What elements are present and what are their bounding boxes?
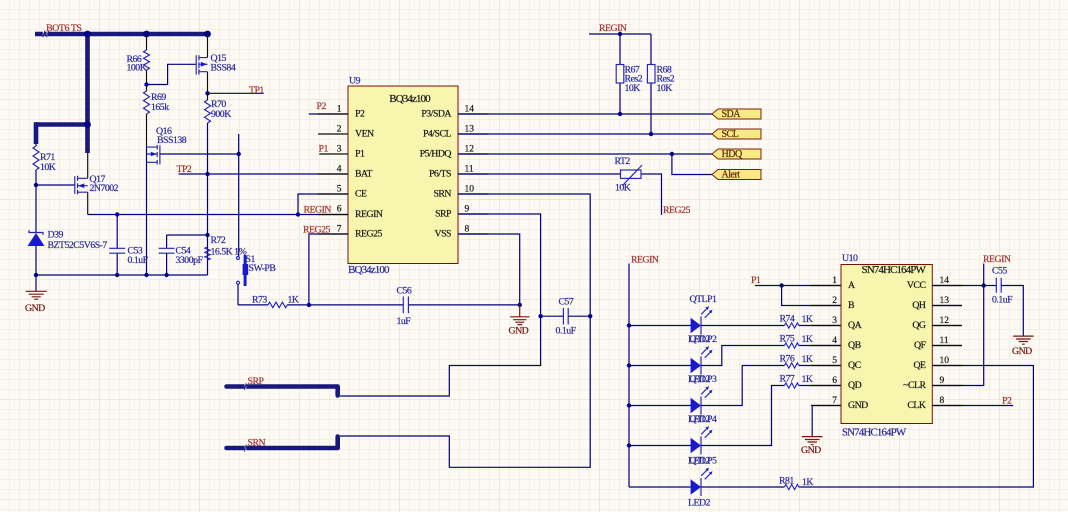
svg-text:1K: 1K bbox=[802, 477, 813, 488]
svg-text:6: 6 bbox=[832, 376, 837, 386]
svg-text:10K: 10K bbox=[657, 83, 673, 94]
svg-text:SDA: SDA bbox=[722, 109, 742, 120]
svg-text:D39: D39 bbox=[48, 230, 64, 241]
svg-text:QD: QD bbox=[848, 380, 862, 391]
svg-text:SCL: SCL bbox=[722, 129, 739, 140]
svg-text:1K: 1K bbox=[802, 334, 813, 345]
svg-text:R73: R73 bbox=[252, 295, 267, 306]
svg-text:QTLP1: QTLP1 bbox=[690, 294, 717, 305]
svg-text:R76: R76 bbox=[780, 354, 795, 365]
svg-text:SW-PB: SW-PB bbox=[249, 263, 277, 274]
svg-text:QTLP2: QTLP2 bbox=[690, 334, 717, 345]
svg-text:GND: GND bbox=[848, 400, 868, 411]
svg-text:REGIN: REGIN bbox=[983, 254, 1011, 265]
svg-text:U9: U9 bbox=[349, 76, 361, 87]
svg-text:13: 13 bbox=[940, 296, 950, 306]
svg-text:4: 4 bbox=[337, 165, 342, 175]
svg-text:GND: GND bbox=[801, 445, 821, 456]
svg-text:REGIN: REGIN bbox=[355, 209, 383, 220]
svg-text:TP2: TP2 bbox=[177, 164, 192, 175]
svg-text:10K: 10K bbox=[40, 162, 56, 173]
svg-text:2: 2 bbox=[337, 125, 342, 135]
svg-text:C57: C57 bbox=[559, 297, 574, 308]
svg-text:U10: U10 bbox=[842, 253, 858, 264]
svg-text:100K: 100K bbox=[127, 63, 147, 74]
svg-text:REGIN: REGIN bbox=[304, 205, 332, 216]
svg-text:3: 3 bbox=[832, 316, 837, 326]
svg-text:QTLP5: QTLP5 bbox=[690, 456, 717, 467]
svg-text:0.1uF: 0.1uF bbox=[128, 255, 149, 266]
svg-text:SRN: SRN bbox=[433, 188, 451, 199]
svg-text:BQ34z100: BQ34z100 bbox=[389, 93, 431, 105]
svg-text:P2: P2 bbox=[355, 108, 365, 119]
svg-text:2N7002: 2N7002 bbox=[90, 183, 119, 194]
svg-text:1uF: 1uF bbox=[397, 316, 412, 327]
svg-text:10: 10 bbox=[940, 356, 950, 366]
svg-text:R81: R81 bbox=[779, 475, 794, 486]
svg-text:QF: QF bbox=[914, 340, 927, 351]
svg-text:QH: QH bbox=[912, 300, 926, 311]
svg-text:R75: R75 bbox=[780, 334, 795, 345]
svg-text:QTLP3: QTLP3 bbox=[690, 374, 717, 385]
svg-text:R72: R72 bbox=[211, 235, 226, 246]
svg-text:P1: P1 bbox=[355, 148, 365, 159]
svg-text:9: 9 bbox=[940, 376, 945, 386]
svg-text:16.5K 1%: 16.5K 1% bbox=[211, 247, 247, 258]
svg-text:14: 14 bbox=[940, 276, 950, 286]
svg-text:VEN: VEN bbox=[355, 128, 374, 139]
svg-text:900K: 900K bbox=[211, 109, 231, 120]
svg-text:10: 10 bbox=[465, 185, 475, 195]
svg-text:QB: QB bbox=[848, 340, 862, 351]
svg-text:BZT52C5V6S-7: BZT52C5V6S-7 bbox=[48, 240, 108, 251]
svg-text:10K: 10K bbox=[615, 183, 631, 194]
svg-text:0.1uF: 0.1uF bbox=[992, 295, 1013, 306]
svg-text:2: 2 bbox=[832, 296, 837, 306]
svg-text:C56: C56 bbox=[397, 286, 412, 297]
svg-text:SRP: SRP bbox=[248, 376, 265, 387]
svg-text:QC: QC bbox=[848, 360, 861, 371]
svg-text:REG25: REG25 bbox=[355, 228, 382, 239]
svg-text:BSS84: BSS84 bbox=[211, 63, 236, 74]
svg-text:Alert: Alert bbox=[722, 169, 741, 180]
svg-text:3300pF: 3300pF bbox=[176, 255, 204, 266]
svg-text:BSS138: BSS138 bbox=[157, 135, 187, 146]
svg-text:P1: P1 bbox=[751, 275, 761, 286]
svg-text:C55: C55 bbox=[992, 266, 1007, 277]
svg-text:12: 12 bbox=[465, 145, 475, 155]
svg-text:1K: 1K bbox=[802, 374, 813, 385]
svg-text:GND: GND bbox=[509, 326, 529, 337]
svg-text:QA: QA bbox=[848, 320, 862, 331]
svg-text:5: 5 bbox=[337, 185, 342, 195]
svg-text:7: 7 bbox=[337, 225, 342, 235]
svg-text:GND: GND bbox=[1012, 346, 1032, 357]
svg-text:P5/HDQ: P5/HDQ bbox=[420, 148, 452, 159]
svg-text:SRN: SRN bbox=[248, 438, 266, 449]
svg-text:11: 11 bbox=[940, 336, 949, 346]
svg-text:1: 1 bbox=[832, 276, 837, 286]
svg-text:SRP: SRP bbox=[435, 208, 452, 219]
svg-text:P2: P2 bbox=[317, 101, 327, 112]
svg-text:5: 5 bbox=[832, 356, 837, 366]
svg-text:8: 8 bbox=[465, 225, 470, 235]
svg-text:RT2: RT2 bbox=[615, 156, 631, 167]
svg-text:1K: 1K bbox=[802, 354, 813, 365]
svg-text:9: 9 bbox=[465, 205, 470, 215]
svg-text:HDQ: HDQ bbox=[722, 149, 743, 160]
svg-text:REGIN: REGIN bbox=[599, 23, 627, 34]
svg-text:11: 11 bbox=[465, 165, 474, 175]
svg-text:P4/SCL: P4/SCL bbox=[423, 128, 452, 139]
svg-text:R77: R77 bbox=[780, 374, 795, 385]
svg-text:CLK: CLK bbox=[907, 400, 926, 411]
svg-text:14: 14 bbox=[465, 105, 475, 115]
svg-text:VSS: VSS bbox=[435, 228, 452, 239]
svg-text:7: 7 bbox=[832, 396, 837, 406]
svg-text:12: 12 bbox=[940, 316, 950, 326]
svg-text:0.1uF: 0.1uF bbox=[556, 326, 577, 337]
svg-text:REGIN: REGIN bbox=[631, 255, 659, 266]
svg-text:P1: P1 bbox=[319, 144, 329, 155]
svg-text:REG25: REG25 bbox=[663, 205, 690, 216]
svg-text:TP1: TP1 bbox=[249, 85, 264, 96]
svg-text:1: 1 bbox=[337, 105, 342, 115]
svg-text:4: 4 bbox=[832, 336, 837, 346]
svg-text:13: 13 bbox=[465, 125, 475, 135]
svg-text:CE: CE bbox=[355, 188, 367, 199]
svg-text:8: 8 bbox=[940, 396, 945, 406]
svg-text:B: B bbox=[848, 300, 855, 311]
svg-text:1K: 1K bbox=[288, 295, 299, 306]
svg-text:10K: 10K bbox=[625, 83, 641, 94]
svg-text:BOT6 TS: BOT6 TS bbox=[46, 23, 82, 34]
svg-text:GND: GND bbox=[25, 303, 45, 314]
svg-text:A: A bbox=[848, 280, 855, 291]
svg-text:BAT: BAT bbox=[355, 168, 373, 179]
svg-text:R74: R74 bbox=[780, 314, 795, 325]
svg-text:P3/SDA: P3/SDA bbox=[421, 108, 451, 119]
svg-text:~CLR: ~CLR bbox=[903, 380, 926, 391]
svg-text:VCC: VCC bbox=[907, 280, 926, 291]
svg-text:P6/TS: P6/TS bbox=[429, 168, 451, 179]
svg-text:165k: 165k bbox=[151, 102, 169, 113]
svg-text:BQ34z100: BQ34z100 bbox=[348, 264, 390, 276]
svg-text:3: 3 bbox=[337, 145, 342, 155]
svg-text:SN74HC164PW: SN74HC164PW bbox=[862, 264, 927, 276]
svg-text:LED2: LED2 bbox=[688, 498, 711, 509]
svg-text:QE: QE bbox=[913, 360, 926, 371]
svg-text:P2: P2 bbox=[1002, 396, 1012, 407]
svg-text:QG: QG bbox=[912, 320, 926, 331]
svg-text:QTLP4: QTLP4 bbox=[690, 414, 717, 425]
svg-text:6: 6 bbox=[337, 205, 342, 215]
svg-text:SN74HC164PW: SN74HC164PW bbox=[842, 426, 907, 438]
svg-text:1K: 1K bbox=[802, 314, 813, 325]
